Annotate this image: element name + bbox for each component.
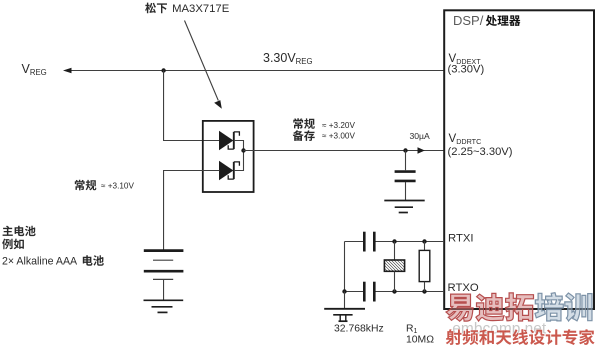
svg-text:RTXO: RTXO <box>448 282 479 294</box>
capacitor C3 <box>363 282 366 302</box>
schottky diode D1 <box>219 131 233 151</box>
wire battery to ground <box>163 279 165 300</box>
junction node diode output <box>241 148 245 152</box>
crystal Y1 32.768kHz <box>394 242 396 261</box>
svg-text:2× Alkaline AAA: 2× Alkaline AAA <box>2 255 78 267</box>
wire diode output to VDDRTC <box>244 150 445 152</box>
svg-text:DSP/: DSP/ <box>453 13 484 28</box>
current arrow 30uA <box>418 147 425 153</box>
wire battery to diode D2 anode <box>164 171 220 251</box>
arrowhead to VREG <box>63 68 72 73</box>
diode pack U1 box <box>203 121 254 192</box>
wire VREG rail <box>69 70 444 72</box>
ground below C1 <box>384 200 424 202</box>
wire left rail <box>344 242 346 292</box>
svg-text:≈ +3.20V: ≈ +3.20V <box>322 121 355 130</box>
wire cathode bus <box>234 141 244 171</box>
wire RTXI <box>345 241 365 243</box>
battery BT1 (2 cells) <box>144 249 184 252</box>
watermark slogan (red) <box>446 329 595 345</box>
junction node VREG/diode branch <box>161 68 165 72</box>
junction node RTXI/crystal <box>392 239 396 243</box>
junction node RTXO/crystal <box>392 289 396 293</box>
wire rail to ground <box>344 292 346 309</box>
label main battery (主电池) <box>3 226 36 237</box>
svg-text:RTXI: RTXI <box>448 232 474 244</box>
svg-text:≈ +3.00V: ≈ +3.00V <box>322 132 355 141</box>
capacitor C2 <box>363 232 366 252</box>
annotation arrow to diode pack <box>185 21 219 101</box>
svg-text:(2.25~3.30V): (2.25~3.30V) <box>448 146 513 158</box>
label Panasonic (松下) <box>145 3 167 14</box>
label backup voltage (备存) <box>293 130 315 141</box>
resistor R1 <box>424 242 426 251</box>
ground below crystal rail <box>324 308 365 310</box>
DSP/processor box <box>444 10 594 309</box>
label normal voltage (常规) <box>293 118 315 129</box>
label for example (例如) <box>2 239 24 250</box>
watermark 培训 (blue) <box>535 293 592 321</box>
schottky diode D2 <box>219 161 233 181</box>
watermark 易迪拓 (red) <box>446 293 534 321</box>
junction node VDDRTC cap <box>403 148 407 152</box>
svg-text:32.768kHz: 32.768kHz <box>334 323 384 334</box>
capacitor C1 <box>405 151 407 171</box>
svg-text:10MΩ: 10MΩ <box>406 335 434 346</box>
junction node RTXO/R1 <box>422 289 426 293</box>
junction node RTXO/rail <box>342 289 346 293</box>
label battery (电池) <box>83 255 104 265</box>
svg-text:≈ +3.10V: ≈ +3.10V <box>101 182 134 191</box>
junction node RTXI/R1 <box>422 239 426 243</box>
wire VREG to diode D1 anode <box>164 71 220 141</box>
svg-text:(3.30V): (3.30V) <box>448 64 485 76</box>
wire RTXO <box>345 291 365 293</box>
label normal battery voltage (常规) <box>75 180 97 191</box>
svg-text:MA3X717E: MA3X717E <box>172 3 230 15</box>
ground below battery <box>144 299 184 301</box>
svg-text:30µA: 30µA <box>410 131 431 141</box>
